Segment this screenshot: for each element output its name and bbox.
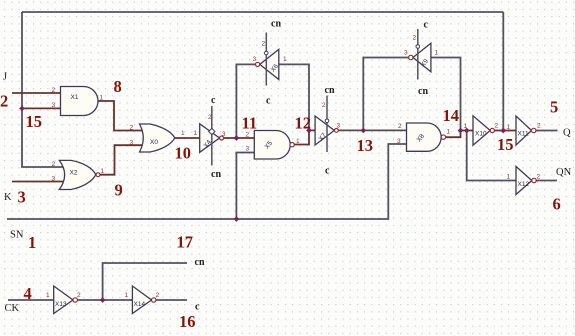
wire control stub c over X4 [211,106,213,166]
control marker circle X6 [265,51,269,55]
junction SN net [234,216,240,222]
svg-text:1: 1 [28,233,36,252]
svg-text:J: J [3,72,7,83]
control marker diamond X4 [209,128,215,134]
svg-text:1: 1 [435,50,439,57]
svg-text:4: 4 [24,284,32,303]
svg-text:cn: cn [211,169,221,180]
svg-text:16: 16 [179,312,196,331]
tri-state inverter X9 (feedback, points left) [404,35,439,72]
svg-text:2: 2 [495,123,499,130]
wire control stub over X6 [265,33,267,86]
wire X14 output to c [156,299,187,301]
wire SN long net [7,144,407,219]
wire right feedback vertical to node 15 [502,12,504,131]
wire X6 loop left side down to X4-X5 net [236,64,255,138]
svg-text:cn: cn [195,257,205,268]
svg-text:Q: Q [563,128,571,139]
svg-text:cn: cn [271,19,281,30]
nor gate X2 [52,160,105,189]
svg-text:c: c [195,302,200,313]
junction net 13 [360,128,366,134]
svg-text:1: 1 [283,56,287,63]
svg-text:11: 11 [242,114,258,133]
svg-text:X0: X0 [150,139,158,146]
svg-text:2: 2 [156,292,160,299]
svg-text:c: c [211,95,216,106]
svg-text:c: c [424,20,429,31]
wire X6 loop right side down to net 12 [279,64,309,130]
svg-text:X10: X10 [475,131,487,138]
wire X0 output to X4 input [175,137,200,139]
svg-text:CK: CK [5,303,20,314]
wire X9 loop right side down to node 15 [431,58,461,131]
svg-text:cn: cn [418,86,428,97]
svg-text:3: 3 [337,123,341,130]
svg-text:13: 13 [357,136,374,155]
svg-text:K: K [4,192,12,203]
svg-text:X12: X12 [518,181,530,188]
svg-text:X13: X13 [55,301,67,308]
svg-text:3: 3 [246,146,250,153]
control marker circle X7 [325,119,329,123]
svg-text:9: 9 [115,181,123,200]
nand gate X8 [397,123,451,151]
wire net 13 X7 output to X8 pin 2 [338,129,406,131]
svg-text:2: 2 [52,161,56,168]
wire X9 loop left side down to net 13 [363,58,408,131]
svg-text:1: 1 [507,124,511,131]
control marker circle X9 [416,45,420,49]
svg-text:QN: QN [556,167,572,178]
wire cn stub riser [103,263,187,300]
svg-text:3: 3 [52,102,56,109]
svg-text:1: 1 [125,292,129,299]
svg-text:3: 3 [404,50,408,57]
svg-text:1: 1 [46,292,50,299]
svg-text:1: 1 [447,129,451,136]
inverter X12 [507,167,541,195]
svg-text:c: c [325,166,330,177]
svg-text:2: 2 [413,35,417,42]
svg-text:6: 6 [553,195,561,214]
or gate X0 [130,124,186,152]
junction node 15 left [19,106,25,112]
svg-text:3: 3 [253,56,257,63]
tri-state inverter X7 [315,102,340,145]
wire X5 pin 3 from SN net [236,153,254,220]
svg-text:X14: X14 [134,301,146,308]
wire CK input to X13 [8,299,54,301]
svg-text:2: 2 [262,41,266,48]
wire X4 output to X5 pin 2 [224,137,255,139]
svg-text:2: 2 [0,92,8,111]
svg-text:1: 1 [194,130,198,137]
junction node 15 right b [464,128,470,134]
svg-text:1: 1 [507,174,511,181]
svg-text:1: 1 [100,95,104,102]
svg-text:5: 5 [550,98,558,117]
wire control stub over X7 [326,96,328,153]
wire X5 output riser to X7 input [294,130,315,144]
svg-text:14: 14 [443,106,460,125]
svg-text:2: 2 [398,123,402,130]
junction node 15 at X11 input [500,128,506,134]
junction net 12 [306,128,312,134]
svg-text:3: 3 [18,188,26,207]
svg-text:17: 17 [177,233,194,252]
svg-text:SN: SN [10,230,24,241]
nand gate X5 [246,131,301,160]
junction X6 loop to X4 output net [234,135,240,141]
wire top feedback long horizontal [22,11,503,13]
svg-text:3: 3 [397,138,401,145]
svg-text:1: 1 [181,130,185,137]
inverter X10 [464,116,499,145]
svg-text:15: 15 [26,112,43,131]
svg-text:3: 3 [52,176,56,183]
wire node 15 to X10 input [461,130,474,132]
svg-text:c: c [266,96,271,107]
wire X11 output to Q [536,130,558,132]
junction CK chain cn tap [100,297,106,303]
svg-text:X2: X2 [70,170,78,177]
and gate X1 [52,87,104,116]
inverter X13 [46,286,81,314]
svg-text:2: 2 [537,174,541,181]
tri-state inverter X4 [194,114,226,152]
tri-state inverter X6 (feedback, points left) [253,41,288,80]
wire left feedback vertical to X2 pin 2 [22,12,64,167]
svg-text:3: 3 [222,131,226,138]
wire X1 output to X0 pin 2 [98,101,143,131]
svg-text:10: 10 [175,144,192,163]
svg-text:2: 2 [537,123,541,130]
svg-text:3: 3 [130,139,134,146]
svg-text:X1: X1 [71,94,79,101]
wire K input to X2 pin 3 [12,181,64,183]
wire X10 output to X11 input [494,130,516,132]
wire node to X12 feeder [467,131,516,181]
wire J input to X1 pin 2 [12,92,61,94]
wire X1 pin 3 from node 15 [22,107,61,109]
wire control stub over X9 [417,29,419,80]
svg-text:2: 2 [130,124,134,131]
wire X8 output riser to node 15 [446,131,461,138]
svg-text:1: 1 [101,168,105,175]
junction node 15 right a [458,128,464,134]
wire X2 output to X0 pin 3 [100,145,143,175]
svg-text:2: 2 [52,87,56,94]
wire X12 output to QN [536,180,557,182]
svg-text:cn: cn [325,85,335,96]
svg-text:15: 15 [497,135,514,154]
svg-text:2: 2 [77,292,81,299]
svg-text:X11: X11 [518,131,529,138]
wire X13 output to X14 input [77,299,132,301]
inverter X11 [507,116,542,145]
inverter X14 [125,286,160,314]
svg-text:8: 8 [114,77,122,96]
svg-text:12: 12 [295,114,312,133]
svg-text:1: 1 [296,138,300,145]
svg-text:2: 2 [322,102,326,109]
